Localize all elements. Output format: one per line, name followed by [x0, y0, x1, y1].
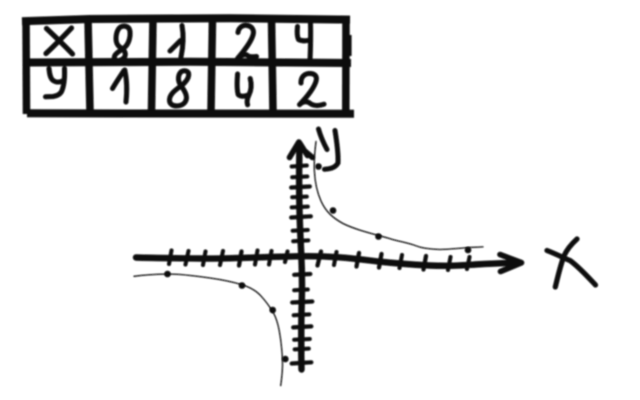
x-axis tick x=380 — [379, 254, 382, 268]
y-axis tick y=315 — [294, 312, 310, 317]
data point (-1,-8) — [282, 356, 289, 363]
data point (2,4) — [330, 207, 337, 214]
x-axis tick x=204 — [203, 252, 206, 266]
y-axis — [299, 144, 302, 370]
y-axis arrowhead — [290, 142, 313, 158]
y axis label — [319, 129, 339, 169]
x-axis tick x=335 — [334, 252, 337, 265]
x axis label — [547, 239, 596, 287]
y-axis tick y=290 — [294, 288, 308, 293]
x-axis tick x=270 — [269, 251, 272, 265]
table cell digit 8 (y=8) — [169, 71, 188, 106]
x-axis tick x=187 — [186, 251, 189, 265]
y-axis tick y=302 — [292, 302, 312, 303]
y-axis tick y=177 — [292, 175, 307, 180]
table outer bottom border — [27, 109, 354, 118]
table column divider 3 — [211, 18, 213, 111]
y-axis tick y=166 — [292, 166, 307, 167]
table outer right border — [342, 17, 350, 116]
x-axis tick x=256 — [255, 251, 258, 265]
y-axis tick y=217 — [291, 216, 311, 217]
x-axis arrowhead — [500, 255, 522, 272]
table cell digit 2 (x=2) — [238, 25, 257, 58]
table cell digit 4 (x=4) — [297, 23, 310, 62]
x-axis tick x=286 — [285, 252, 288, 263]
table column divider 4 — [272, 18, 274, 111]
table column divider 1 — [88, 19, 90, 111]
x-axis tick x=240 — [239, 252, 242, 266]
table column divider 2 — [152, 18, 154, 111]
y-axis tick y=339 — [294, 337, 310, 342]
data point (4,2) — [375, 233, 382, 240]
x-axis tick x=357 — [357, 253, 360, 267]
data point (-4,-2) — [239, 282, 246, 289]
data point (-2,-4) — [269, 307, 276, 314]
x-axis tick x=319 — [318, 252, 322, 266]
data point (1,8) — [315, 163, 322, 170]
y-axis tick y=363 — [292, 362, 312, 363]
hyperbola branch quadrant I — [314, 142, 483, 250]
table right border tab — [348, 35, 352, 56]
y-axis tick y=207 — [292, 205, 308, 210]
table cell digit 1 (x=1) — [170, 26, 183, 58]
x-axis tick x=400 — [400, 255, 403, 268]
table cell digit 2 (y=2) — [300, 73, 325, 105]
table header letter x — [46, 28, 73, 54]
data point (-8,-1) — [164, 271, 171, 278]
y-axis tick y=349 — [295, 347, 309, 352]
x-axis tick x=449 — [448, 257, 451, 270]
table cell digit 8 (x=8) — [114, 26, 130, 60]
y-axis tick y=187 — [291, 187, 310, 188]
table header letter y — [46, 69, 65, 97]
table row divider — [23, 62, 352, 63]
y-axis tick y=230 — [293, 228, 308, 233]
x-axis tick x=424 — [424, 256, 427, 270]
data point (8,1) — [465, 247, 472, 254]
y-axis tick y=274 — [294, 272, 310, 277]
table outer left border — [22, 18, 30, 115]
x-axis tick x=221 — [220, 251, 223, 265]
x-axis tick x=170 — [169, 251, 172, 265]
table outer top border — [22, 18, 350, 21]
table cell digit 1 (y=1) — [113, 70, 127, 102]
hyperbola branch quadrant III — [134, 274, 283, 386]
x-axis tick x=468 — [467, 257, 470, 269]
y-axis tick y=327 — [293, 326, 311, 327]
x-axis — [136, 256, 516, 266]
y-axis tick y=197 — [292, 195, 307, 200]
y-axis tick y=241 — [293, 238, 308, 243]
table cell digit 4 (y=4) — [237, 74, 251, 105]
